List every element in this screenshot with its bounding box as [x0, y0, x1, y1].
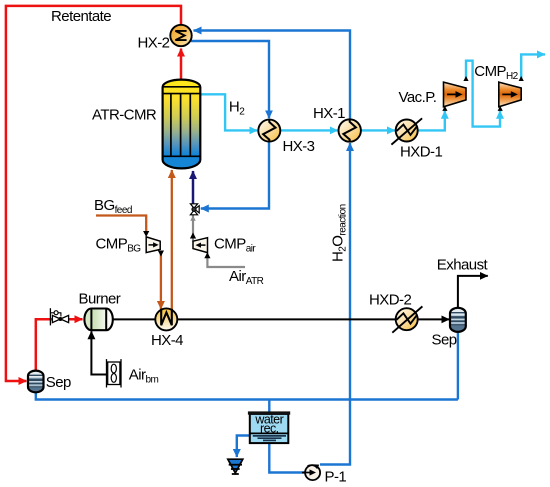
wire red left Sep top up to valve and into Burner	[36, 319, 83, 371]
svg-text:Sep: Sep	[46, 374, 71, 391]
heat exchanger HX-4	[155, 308, 177, 330]
heat exchanger HX-1	[339, 119, 361, 141]
svg-text:HXD-1: HXD-1	[400, 143, 442, 160]
blower Air_bm	[107, 359, 122, 387]
wire black air into burner bottom	[91, 331, 106, 374]
valve with actuator before burner	[50, 308, 68, 325]
heat exchanger HX-3	[258, 120, 280, 142]
burner vessel	[84, 309, 112, 331]
svg-text:HX-3: HX-3	[283, 138, 315, 155]
wire red ATR-CMR top to HX-2 bottom	[180, 49, 183, 81]
wire water blue: HX-3 bottom down, left into mixing valve	[201, 141, 269, 209]
arrow black CMP_BG outlet down	[158, 251, 164, 257]
compressor CMP_air	[193, 238, 208, 253]
op heat exchanger HX-2	[170, 25, 191, 46]
svg-text:Exhaust: Exhaust	[437, 256, 489, 273]
wire gray air CMP_air outlet up to mixing valve	[192, 215, 194, 242]
svg-text:HX-1: HX-1	[313, 105, 345, 122]
wire navy mixed steam-air from valve up into ATR-CMR bottom	[192, 171, 195, 204]
svg-text:HX-2: HX-2	[138, 34, 170, 51]
wire blue condensate right Sep bottom down	[457, 332, 459, 400]
drain symbol	[228, 459, 243, 474]
arrow black CMP_BG inlet down	[143, 231, 149, 237]
heat exchanger HXD-2 with diagonal	[392, 306, 422, 332]
separator Sep left	[28, 371, 44, 394]
wire blue tank bottom to P-1 inlet	[269, 443, 304, 473]
wire black exhaust from right Sep top up and right	[458, 276, 488, 308]
wire black burner exhaust line through HX-4 and HXD-2 into right Sep	[112, 318, 449, 320]
svg-text:ATR-CMR: ATR-CMR	[92, 106, 157, 123]
wire cyan HXD-1 right then up into Vac.P. inlet	[418, 111, 445, 131]
water recovery tank	[248, 411, 290, 443]
compressor Vac.P.	[442, 76, 468, 111]
mixing valve (3-way) above CMP_air	[190, 204, 199, 221]
svg-text:Vac.P.: Vac.P.	[399, 89, 437, 106]
wire blue drop into water tank	[268, 400, 270, 414]
svg-text:rec.: rec.	[260, 421, 279, 435]
svg-text:Sep: Sep	[432, 331, 457, 348]
svg-text:HX-4: HX-4	[151, 332, 183, 349]
wire cyan Vac.P. outlet up over and down to CMP_H2 inlet	[466, 61, 500, 127]
wire orange CMP_BG outlet down into HX-4	[160, 253, 162, 309]
wire water blue: HX-1 top up, left into HX-2	[194, 31, 351, 121]
svg-text:P-1: P-1	[325, 468, 347, 485]
wire cyan HX-1 to HXD-1	[361, 129, 395, 131]
arrow black on air line up	[190, 233, 196, 239]
svg-text:HXD-2: HXD-2	[369, 292, 411, 309]
compressor CMP_BG	[146, 237, 160, 253]
wire gray Air_ATR into CMP_air inlet	[207, 254, 245, 268]
wire cyan CMP_H2 outlet up right to edge	[521, 54, 545, 78]
wire cyan H2 from vessel to HX-3	[201, 94, 258, 130]
heat exchanger HXD-1 with diagonal	[391, 118, 422, 144]
svg-text:Retentate: Retentate	[51, 8, 111, 25]
wire orange HX-4 up into ATR-CMR bottom	[171, 170, 173, 310]
wire retentate red: HX-2 top, across top, down left side, into left Sep	[6, 6, 181, 381]
separator Sep right	[450, 308, 466, 333]
svg-text:Burner: Burner	[79, 291, 121, 308]
wire water blue: HX-2 right out, right then down into HX-3 top	[191, 41, 269, 118]
compressor CMP_H2	[498, 76, 524, 111]
arrow black CMP_air inlet up	[204, 252, 210, 258]
wire cyan HX-3 to HX-1	[281, 129, 338, 131]
wire blue condensate from left Sep bottom along bottom	[36, 392, 458, 400]
wire orange BG_feed to CMP_BG inlet	[96, 216, 146, 232]
wire blue tank left outlet to drain	[237, 436, 250, 458]
wire water blue: P-1 outlet right then up into HX-1 bottom	[320, 143, 350, 465]
pump P-1	[302, 464, 320, 480]
vessel ATR-CMR	[163, 80, 201, 169]
